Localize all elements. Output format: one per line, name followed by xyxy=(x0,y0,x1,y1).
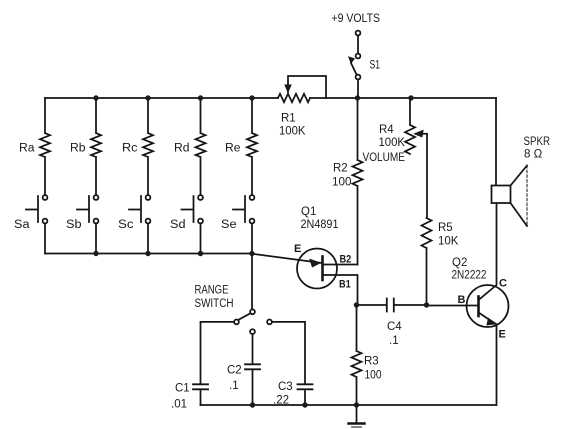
node dot top bus S1 xyxy=(355,95,360,100)
svg-text:Rd: Rd xyxy=(174,143,190,155)
node dot bottom switch bus Sb xyxy=(93,251,98,256)
svg-text:2N4891: 2N4891 xyxy=(301,219,339,231)
resistor R2 xyxy=(353,98,363,265)
wire top bus R4 node to right corner xyxy=(411,97,496,99)
switch Sb xyxy=(77,195,98,253)
svg-text:R4: R4 xyxy=(379,124,394,136)
svg-text:B1: B1 xyxy=(339,279,351,291)
svg-text:Sc: Sc xyxy=(118,219,134,231)
wire vertical to range switch pole xyxy=(251,254,253,310)
node dot top bus R4 xyxy=(408,95,413,100)
range switch right contact xyxy=(267,320,305,385)
svg-text:.1: .1 xyxy=(389,335,399,347)
svg-text:R2: R2 xyxy=(333,163,348,175)
svg-text:+9 VOLTS: +9 VOLTS xyxy=(332,13,381,25)
svg-text:.01: .01 xyxy=(171,399,187,411)
range switch pole and arm xyxy=(239,309,255,319)
transistor Q1 (UJT 2N4891) xyxy=(297,249,358,306)
svg-text:C3: C3 xyxy=(278,381,293,393)
capacitor C2 xyxy=(245,364,260,405)
svg-text:Re: Re xyxy=(225,143,241,155)
node dot C2 bottom xyxy=(250,402,255,407)
svg-text:Se: Se xyxy=(221,219,237,231)
svg-text:S1: S1 xyxy=(370,60,381,72)
svg-text:RANGE: RANGE xyxy=(195,285,229,297)
svg-text:.1: .1 xyxy=(229,380,239,392)
node dot top bus Re xyxy=(249,95,254,100)
switch Se xyxy=(233,195,254,253)
switch S1 xyxy=(349,31,361,98)
svg-text:Sa: Sa xyxy=(14,219,30,231)
node dot bottom switch bus Sd xyxy=(198,251,203,256)
resistor Rc xyxy=(143,98,153,195)
node dot R5-C4-base xyxy=(424,302,429,307)
svg-text:8 Ω: 8 Ω xyxy=(524,149,543,161)
svg-text:2N2222: 2N2222 xyxy=(452,270,487,282)
svg-text:10K: 10K xyxy=(438,236,459,248)
resistor Rd xyxy=(196,98,206,195)
node dot top bus Rb xyxy=(93,95,98,100)
svg-text:Rc: Rc xyxy=(122,143,138,155)
capacitor C3 xyxy=(298,384,313,405)
ground xyxy=(349,405,365,427)
svg-text:100K: 100K xyxy=(379,137,406,149)
node dot B1-R3-C4 xyxy=(354,302,359,307)
node dot top bus Rd xyxy=(198,95,203,100)
resistor Rb xyxy=(91,98,101,195)
svg-text:Q1: Q1 xyxy=(301,206,316,218)
svg-text:SPKR: SPKR xyxy=(524,136,551,148)
svg-text:SWITCH: SWITCH xyxy=(195,298,234,310)
switch Sa xyxy=(26,195,47,253)
switch Sc xyxy=(129,195,150,253)
svg-text:B: B xyxy=(458,294,466,306)
node dot bottom switch bus Sc xyxy=(145,251,150,256)
potentiometer R4 xyxy=(405,98,427,218)
wire right vertical to speaker xyxy=(495,98,497,186)
wire top bus R1 to S1 node xyxy=(310,97,358,99)
svg-text:VOLUME: VOLUME xyxy=(363,152,406,164)
svg-text:100: 100 xyxy=(332,177,352,189)
range switch left contact xyxy=(201,320,239,385)
wire B1 node to C4 xyxy=(357,304,387,306)
svg-text:B2: B2 xyxy=(340,254,352,266)
potentiometer R1 xyxy=(278,76,326,102)
wire C4 to Q2 base xyxy=(427,305,479,307)
node dot C3 bottom xyxy=(302,402,307,407)
svg-text:100: 100 xyxy=(365,370,382,382)
svg-text:.22: .22 xyxy=(273,395,289,407)
node dot R3 ground xyxy=(354,402,359,407)
svg-text:Sb: Sb xyxy=(66,219,82,231)
svg-text:100K: 100K xyxy=(279,126,306,138)
resistor Re xyxy=(247,98,257,195)
node dot bottom switch bus Se xyxy=(249,251,254,256)
svg-text:E: E xyxy=(499,329,506,341)
wire top bus left network xyxy=(45,97,278,99)
svg-text:Ra: Ra xyxy=(19,143,35,155)
transistor Q2 (2N2222) xyxy=(467,203,509,405)
wire bottom bus xyxy=(201,404,497,406)
svg-text:E: E xyxy=(294,243,301,255)
svg-text:Q2: Q2 xyxy=(452,257,467,269)
svg-text:C4: C4 xyxy=(387,321,402,333)
svg-text:R1: R1 xyxy=(281,113,296,125)
svg-text:C2: C2 xyxy=(227,365,242,377)
svg-text:Sd: Sd xyxy=(170,219,186,231)
svg-text:C: C xyxy=(499,278,507,290)
svg-text:R3: R3 xyxy=(364,356,379,368)
capacitor C1 xyxy=(193,384,208,405)
svg-text:C1: C1 xyxy=(175,383,190,395)
resistor R3 xyxy=(352,305,362,405)
range switch middle contact xyxy=(250,329,255,364)
wire bottom switch bus / Q1 emitter line xyxy=(45,254,322,264)
capacitor C4 xyxy=(387,299,426,312)
switch Sd xyxy=(182,195,203,253)
svg-text:Rb: Rb xyxy=(70,143,86,155)
resistor Ra xyxy=(40,98,50,195)
wire top bus S1 node to R4 node xyxy=(358,97,412,99)
node dot top bus Rc xyxy=(145,95,150,100)
svg-text:R5: R5 xyxy=(438,222,453,234)
speaker SPKR xyxy=(492,166,528,227)
resistor R5 xyxy=(422,218,432,305)
